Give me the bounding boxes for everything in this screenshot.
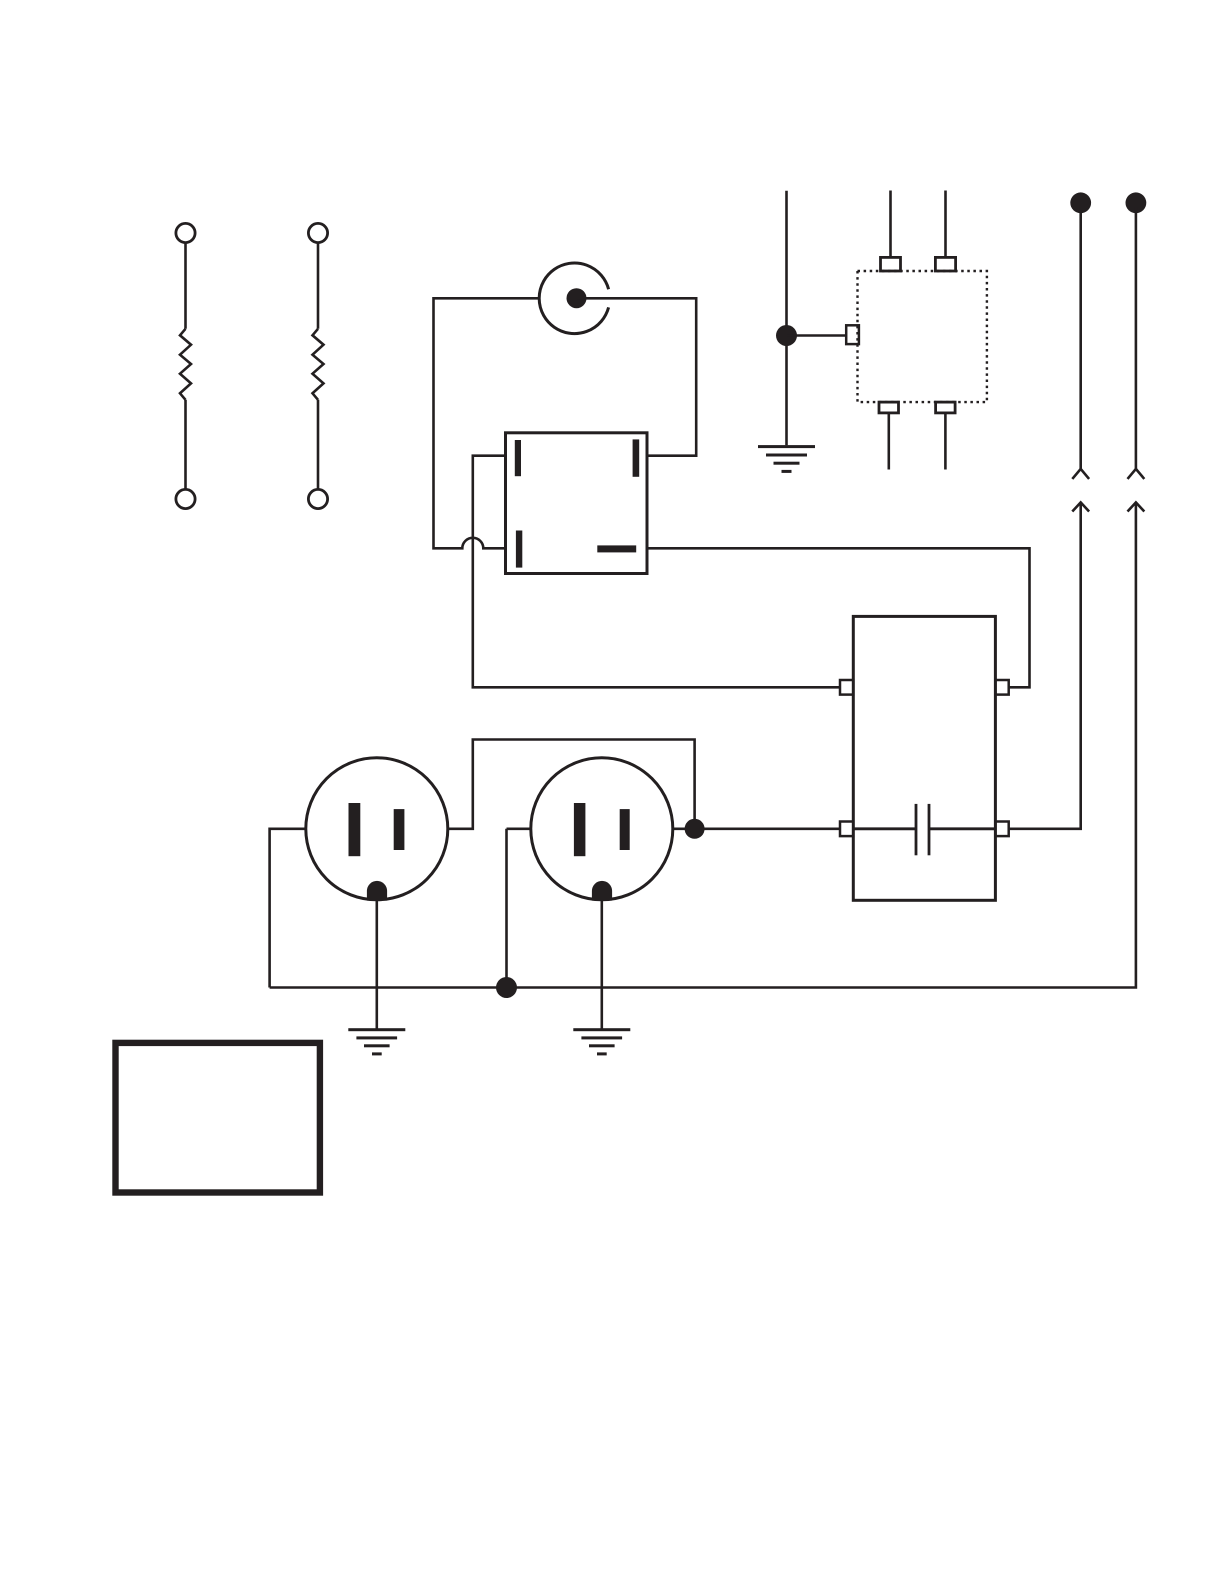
- wire L1 upper segment: [1079, 207, 1082, 469]
- capacitor element C1: [853, 804, 995, 855]
- wire L1 lower segment to capacitor lower-right tab: [1009, 502, 1081, 828]
- capacitor tab lower-right: [995, 822, 1008, 837]
- ground below junction: [758, 445, 815, 473]
- timer top terminal pin 2: [935, 257, 955, 271]
- ground below J1: [348, 1028, 405, 1055]
- timer top terminal pin 1: [881, 257, 901, 271]
- wire switch upper-left terminal to capacitor upper-left tab: [473, 456, 840, 688]
- timer T1 dashed outline: [858, 271, 987, 402]
- break arrow L2: [1128, 502, 1145, 511]
- capacitor tab lower-left: [840, 822, 853, 837]
- receptacle J1: [306, 758, 448, 901]
- switch S1: [506, 433, 648, 574]
- capacitor tab upper-left: [840, 680, 853, 695]
- timer left terminal pin: [846, 325, 859, 344]
- node at J2 right: [685, 819, 705, 839]
- wire motor right loop: [577, 298, 697, 455]
- timer bottom terminal pin 4: [936, 402, 956, 413]
- wire J2 left from node: [507, 827, 531, 830]
- ground below J2: [573, 1028, 630, 1055]
- wire timer pin 1 up: [889, 191, 892, 258]
- capacitor C1 box: [853, 616, 995, 900]
- wire motor left loop with hop: [434, 298, 540, 548]
- supply line L2 terminal dot: [1126, 192, 1147, 213]
- break arrow L1: [1072, 502, 1089, 511]
- wire J1 ground lead: [375, 901, 378, 1030]
- node bottom bus junction: [496, 977, 517, 998]
- wire J2 ground lead: [600, 901, 603, 1030]
- wire J1 right over to node at J2 right: [448, 740, 695, 829]
- label box: [116, 1043, 320, 1193]
- wire J2 right to capacitor lower-left tab: [673, 827, 840, 830]
- wire junction to timer left terminal: [787, 334, 847, 337]
- wire L2 lower segment to bottom bus: [270, 502, 1136, 987]
- timer bottom terminal pin 3: [879, 402, 899, 413]
- supply line L1 terminal dot: [1070, 192, 1091, 213]
- capacitor tab upper-right: [995, 680, 1008, 695]
- wire node to bottom bus: [505, 829, 508, 988]
- wire L2 upper segment: [1135, 207, 1138, 469]
- node junction at timer input: [776, 325, 797, 346]
- wire timer pin 2 up: [944, 191, 947, 258]
- wire timer pin 3 down: [887, 413, 890, 470]
- wire switch lower-right terminal to capacitor upper-right tab: [647, 548, 1030, 687]
- receptacle J2: [531, 758, 673, 901]
- wire vertical net to timer: [785, 191, 788, 446]
- heating element R1: [176, 223, 195, 508]
- motor M1: [539, 263, 608, 334]
- break chevron L2: [1128, 469, 1145, 479]
- break chevron L1: [1072, 469, 1089, 479]
- wire J1 left to bottom bus: [270, 829, 306, 988]
- heating element R2: [308, 223, 327, 508]
- wire timer pin 4 down: [944, 413, 947, 470]
